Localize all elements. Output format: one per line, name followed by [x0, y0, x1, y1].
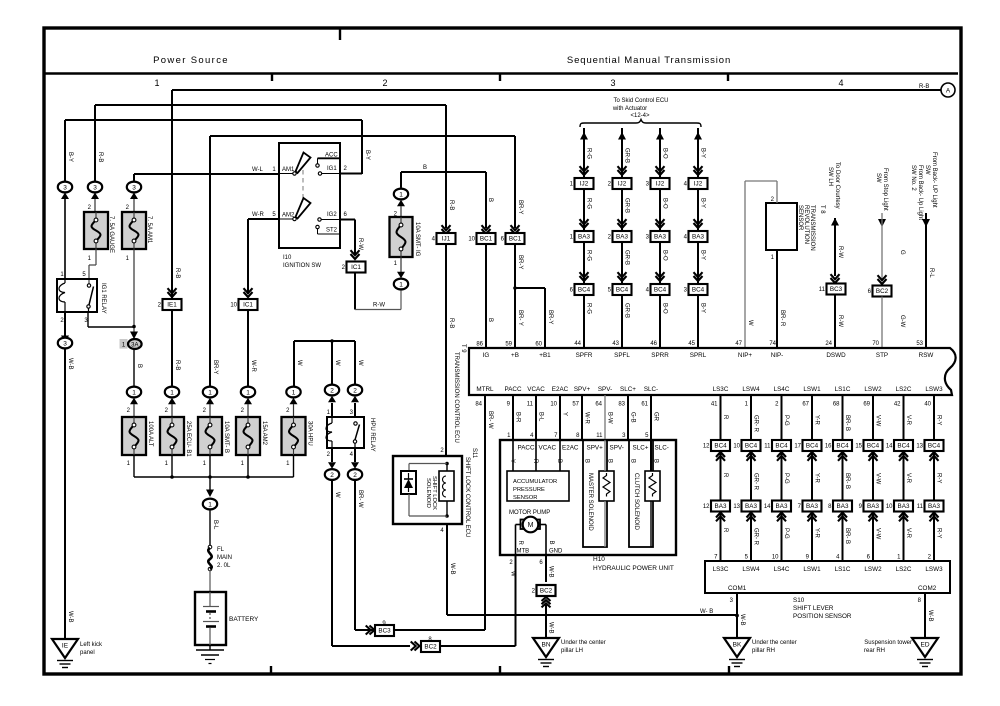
svg-text:B: B	[556, 459, 562, 463]
svg-text:GR- R: GR- R	[753, 528, 759, 546]
svg-text:3: 3	[63, 340, 67, 347]
svg-text:GR-B: GR-B	[624, 250, 630, 265]
svg-text:LS2C: LS2C	[896, 386, 912, 393]
svg-text:GR- R: GR- R	[753, 415, 759, 433]
svg-text:57: 57	[572, 402, 579, 408]
svg-text:pillar LH: pillar LH	[561, 648, 583, 654]
svg-text:B-Y: B-Y	[700, 303, 706, 313]
svg-text:W-B: W-B	[548, 566, 554, 578]
svg-text:BR-Y: BR-Y	[547, 310, 553, 324]
svg-text:B: B	[487, 198, 493, 202]
svg-text:A: A	[946, 87, 951, 94]
svg-text:BA3: BA3	[578, 234, 590, 241]
svg-text:BC2: BC2	[876, 288, 889, 295]
svg-text:IJ2: IJ2	[694, 181, 703, 188]
svg-text:SLC+: SLC+	[620, 386, 636, 393]
svg-text:G: G	[899, 250, 905, 255]
svg-text:SW: SW	[924, 165, 930, 175]
svg-text:W-R: W-R	[252, 212, 265, 218]
svg-text:W: W	[296, 360, 302, 366]
svg-text:12: 12	[703, 444, 710, 450]
svg-text:1: 1	[208, 389, 212, 396]
svg-text:V-R: V-R	[905, 528, 911, 539]
svg-text:R: R	[722, 415, 728, 420]
svg-text:R-B: R-B	[97, 152, 103, 162]
svg-text:13: 13	[916, 444, 923, 450]
svg-text:47: 47	[735, 341, 742, 347]
svg-text:SPV+: SPV+	[574, 386, 591, 393]
svg-text:B-O: B-O	[662, 303, 668, 314]
svg-text:ACCUMULATOR: ACCUMULATOR	[513, 479, 557, 485]
svg-text:VCAC: VCAC	[539, 445, 557, 452]
svg-text:84: 84	[475, 402, 482, 408]
svg-text:3: 3	[610, 78, 615, 88]
svg-text:R-G: R-G	[586, 198, 592, 209]
svg-text:MOTOR PUMP: MOTOR PUMP	[509, 510, 550, 516]
svg-text:30A HPU: 30A HPU	[307, 421, 313, 446]
svg-text:12: 12	[703, 504, 710, 510]
svg-text:IJ1: IJ1	[442, 236, 451, 243]
svg-text:BA3: BA3	[837, 503, 849, 510]
svg-text:LSW3: LSW3	[925, 386, 943, 393]
svg-text:Y: Y	[562, 412, 568, 416]
svg-text:PACC: PACC	[504, 386, 521, 393]
svg-text:3: 3	[93, 184, 97, 191]
svg-text:BC3: BC3	[830, 286, 843, 293]
svg-text:V-W: V-W	[875, 528, 881, 540]
svg-text:B-Y: B-Y	[364, 150, 370, 160]
svg-text:LSW4: LSW4	[742, 566, 760, 573]
svg-text:17: 17	[794, 444, 801, 450]
svg-text:3: 3	[132, 184, 136, 191]
svg-text:44: 44	[574, 341, 581, 347]
svg-text:SENSOR: SENSOR	[797, 205, 803, 231]
svg-text:W-R: W-R	[584, 412, 590, 425]
svg-text:13: 13	[733, 504, 740, 510]
svg-text:B-O: B-O	[662, 198, 668, 209]
svg-text:1: 1	[132, 389, 136, 396]
svg-text:R-B: R-B	[174, 360, 180, 370]
svg-text:100A ALT: 100A ALT	[147, 421, 153, 447]
svg-text:Left kick: Left kick	[80, 642, 103, 648]
svg-text:IG: IG	[483, 352, 490, 359]
svg-text:S11: S11	[471, 448, 477, 459]
svg-text:S10: S10	[793, 597, 805, 604]
svg-text:BA3: BA3	[616, 234, 628, 241]
svg-text:<12-4>: <12-4>	[630, 113, 650, 119]
svg-text:BC1: BC1	[480, 236, 493, 243]
svg-text:To Door Courtesy: To Door Courtesy	[834, 162, 840, 209]
svg-text:BA3: BA3	[898, 503, 910, 510]
svg-text:W-B: W-B	[548, 622, 554, 634]
svg-text:W-B: W-B	[927, 610, 933, 622]
svg-text:BC4: BC4	[616, 287, 629, 294]
svg-text:7. 5A GAUGE: 7. 5A GAUGE	[108, 216, 114, 253]
svg-text:BR- W: BR- W	[487, 411, 493, 429]
svg-text:SPFR: SPFR	[576, 352, 593, 359]
svg-text:64: 64	[595, 402, 602, 408]
svg-text:B: B	[584, 459, 590, 463]
svg-text:1: 1	[170, 389, 174, 396]
svg-text:67: 67	[802, 402, 809, 408]
svg-text:IJ2: IJ2	[656, 181, 665, 188]
svg-text:P-G: P-G	[783, 528, 789, 539]
svg-text:T 8: T 8	[819, 205, 825, 214]
svg-text:IGNITION SW: IGNITION SW	[283, 263, 321, 269]
svg-text:DSWD: DSWD	[826, 352, 846, 359]
svg-text:B-O: B-O	[662, 148, 668, 159]
svg-text:15A AM2: 15A AM2	[261, 421, 267, 446]
svg-text:V-R: V-R	[905, 473, 911, 484]
svg-text:PRESSURE: PRESSURE	[513, 487, 545, 493]
svg-text:Under the center: Under the center	[561, 640, 606, 646]
svg-text:BR- R: BR- R	[779, 310, 785, 327]
svg-text:pillar RH: pillar RH	[752, 648, 775, 654]
svg-text:R-Y: R-Y	[936, 473, 942, 483]
svg-text:LSW3: LSW3	[925, 566, 943, 573]
svg-text:To Skid Control ECU: To Skid Control ECU	[613, 98, 668, 104]
svg-text:BC4: BC4	[775, 443, 788, 450]
svg-text:M: M	[528, 522, 534, 529]
svg-text:LS2C: LS2C	[896, 566, 912, 573]
svg-text:MTRL: MTRL	[476, 386, 494, 393]
svg-text:7. 5A AM1: 7. 5A AM1	[146, 216, 152, 244]
svg-text:B-L: B-L	[212, 520, 218, 530]
svg-text:GR-B: GR-B	[624, 148, 630, 163]
svg-text:BC4: BC4	[836, 443, 849, 450]
svg-text:TRANSMISSION CONTROL ECU: TRANSMISSION CONTROL ECU	[453, 352, 459, 443]
svg-text:G-B: G-B	[630, 412, 636, 423]
svg-text:+B: +B	[511, 352, 519, 359]
svg-text:86: 86	[476, 342, 483, 348]
svg-text:SENSOR: SENSOR	[513, 495, 537, 501]
svg-text:IG2: IG2	[327, 212, 337, 218]
svg-text:15: 15	[855, 444, 862, 450]
svg-text:B-Y: B-Y	[700, 198, 706, 208]
svg-text:B: B	[423, 165, 427, 171]
svg-text:R-B: R-B	[448, 318, 454, 328]
svg-text:ED: ED	[920, 642, 929, 649]
svg-text:B-Y: B-Y	[700, 250, 706, 260]
svg-text:From Stop Light: From Stop Light	[882, 168, 888, 211]
svg-text:10: 10	[550, 402, 557, 408]
svg-text:W: W	[334, 360, 340, 366]
svg-text:BR- W: BR- W	[357, 490, 363, 508]
svg-text:SHIFT LEVER: SHIFT LEVER	[793, 605, 834, 612]
svg-text:10: 10	[733, 444, 740, 450]
svg-text:B: B	[487, 318, 493, 322]
svg-text:Under the center: Under the center	[752, 640, 797, 646]
svg-text:11: 11	[764, 444, 771, 450]
svg-text:W-R: W-R	[250, 360, 256, 373]
svg-text:B: B	[136, 364, 142, 368]
svg-text:with Actuator: with Actuator	[612, 106, 647, 112]
svg-text:RSW: RSW	[919, 352, 934, 359]
svg-text:R: R	[532, 459, 538, 464]
svg-text:BA3: BA3	[654, 234, 666, 241]
svg-text:41: 41	[711, 402, 718, 408]
svg-text:H10: H10	[593, 556, 605, 563]
svg-text:IC1: IC1	[351, 264, 361, 271]
svg-text:R: R	[517, 541, 523, 546]
svg-text:VCAC: VCAC	[527, 386, 545, 393]
svg-text:IG1: IG1	[327, 166, 337, 172]
svg-text:14: 14	[886, 444, 893, 450]
svg-text:GR: GR	[653, 412, 659, 422]
svg-text:W: W	[510, 571, 516, 577]
svg-text:1: 1	[246, 389, 250, 396]
svg-text:11: 11	[527, 402, 534, 408]
svg-text:GR-B: GR-B	[624, 303, 630, 318]
svg-text:BR-Y: BR-Y	[517, 255, 523, 269]
svg-text:BC4: BC4	[806, 443, 819, 450]
svg-text:2: 2	[382, 78, 387, 88]
svg-text:POSITION SENSOR: POSITION SENSOR	[793, 613, 852, 620]
svg-text:10A SMT- B: 10A SMT- B	[223, 421, 229, 453]
svg-text:B-L: B-L	[538, 412, 544, 422]
svg-text:3A: 3A	[131, 342, 138, 348]
svg-text:IJ2: IJ2	[618, 181, 627, 188]
svg-text:2: 2	[353, 472, 357, 479]
svg-text:BA3: BA3	[692, 234, 704, 241]
svg-text:59: 59	[505, 342, 512, 348]
svg-text:BC4: BC4	[692, 287, 705, 294]
svg-text:SPFL: SPFL	[614, 352, 630, 359]
svg-text:G-W: G-W	[899, 315, 905, 328]
svg-text:BC4: BC4	[654, 287, 667, 294]
svg-text:3: 3	[63, 184, 67, 191]
svg-text:BATTERY: BATTERY	[229, 616, 259, 623]
svg-text:B: B	[548, 541, 554, 545]
svg-text:83: 83	[618, 402, 625, 408]
svg-text:4: 4	[838, 78, 843, 88]
svg-text:SPRL: SPRL	[690, 352, 707, 359]
svg-text:R: R	[722, 528, 728, 533]
svg-text:V-R: V-R	[905, 415, 911, 426]
svg-text:Y-R: Y-R	[814, 473, 820, 483]
svg-text:Power Source: Power Source	[153, 55, 229, 66]
svg-text:SOLENOID: SOLENOID	[425, 478, 431, 508]
svg-text:IE1: IE1	[167, 302, 177, 309]
svg-text:STP: STP	[876, 352, 888, 359]
svg-text:45: 45	[688, 341, 695, 347]
svg-text:R: R	[722, 473, 728, 478]
svg-text:R-Y: R-Y	[936, 528, 942, 538]
svg-text:CLUTCH SOLENOID: CLUTCH SOLENOID	[633, 473, 639, 531]
svg-text:IC1: IC1	[243, 302, 253, 309]
svg-text:BN: BN	[541, 642, 550, 649]
svg-text:BA3: BA3	[928, 503, 940, 510]
svg-text:+B1: +B1	[539, 352, 551, 359]
svg-text:T 9: T 9	[460, 344, 466, 353]
svg-text:68: 68	[833, 402, 840, 408]
svg-text:B-R: B-R	[515, 412, 521, 423]
svg-text:BR- B: BR- B	[844, 528, 850, 544]
svg-text:W-B: W-B	[739, 614, 745, 626]
svg-text:70: 70	[872, 341, 879, 347]
svg-text:SW No. 2: SW No. 2	[910, 165, 916, 191]
svg-text:LS3C: LS3C	[713, 566, 729, 573]
svg-text:NIP+: NIP+	[738, 352, 752, 359]
svg-text:W: W	[747, 320, 753, 326]
svg-text:BR- B: BR- B	[844, 415, 850, 431]
svg-text:P-G: P-G	[783, 415, 789, 426]
svg-text:R-G: R-G	[586, 303, 592, 314]
svg-text:16: 16	[825, 444, 832, 450]
svg-text:BC4: BC4	[745, 443, 758, 450]
svg-text:B-O: B-O	[662, 250, 668, 261]
svg-text:W: W	[357, 360, 363, 366]
svg-text:COM1: COM1	[728, 585, 747, 592]
svg-text:1: 1	[154, 78, 159, 88]
svg-text:LSW2: LSW2	[864, 386, 882, 393]
svg-text:BA3: BA3	[745, 503, 757, 510]
svg-text:panel: panel	[80, 650, 95, 656]
svg-text:B-Y: B-Y	[700, 148, 706, 158]
svg-text:2. 0L: 2. 0L	[217, 563, 231, 569]
svg-text:BC4: BC4	[897, 443, 910, 450]
svg-text:W: W	[334, 492, 340, 498]
svg-text:BR-Y: BR-Y	[212, 360, 218, 374]
svg-text:P-G: P-G	[783, 473, 789, 484]
svg-text:ACC: ACC	[325, 153, 338, 159]
svg-text:LS1C: LS1C	[835, 386, 851, 393]
svg-text:61: 61	[641, 402, 648, 408]
svg-text:10A SMT- IG: 10A SMT- IG	[414, 222, 420, 257]
svg-text:Suspension tower: Suspension tower	[864, 640, 912, 646]
svg-text:From Back- UP Light: From Back- UP Light	[931, 152, 937, 208]
svg-text:BA3: BA3	[776, 503, 788, 510]
svg-text:LSW2: LSW2	[864, 566, 882, 573]
svg-text:43: 43	[612, 341, 619, 347]
svg-text:R-G: R-G	[586, 148, 592, 159]
svg-text:10: 10	[886, 504, 893, 510]
svg-text:LS4C: LS4C	[774, 386, 790, 393]
svg-text:25A ECU- B1: 25A ECU- B1	[185, 421, 191, 457]
svg-text:69: 69	[863, 402, 870, 408]
svg-text:SLC-: SLC-	[655, 445, 669, 452]
svg-text:SW: SW	[875, 173, 881, 183]
svg-text:SW LH: SW LH	[827, 167, 833, 186]
svg-text:74: 74	[769, 341, 776, 347]
svg-text:E2AC: E2AC	[552, 386, 569, 393]
svg-text:BA3: BA3	[806, 503, 818, 510]
svg-text:B: B	[630, 459, 636, 463]
svg-text:W-B: W-B	[67, 611, 73, 623]
svg-text:SLC-: SLC-	[644, 386, 658, 393]
svg-text:BR- B: BR- B	[844, 473, 850, 489]
svg-text:COM2: COM2	[918, 585, 937, 592]
svg-text:IJ2: IJ2	[580, 181, 589, 188]
svg-text:SPRR: SPRR	[651, 352, 669, 359]
svg-text:BK: BK	[733, 642, 742, 649]
svg-text:R-W: R-W	[357, 238, 363, 250]
svg-text:Y-R: Y-R	[814, 528, 820, 538]
svg-text:R-Y: R-Y	[936, 415, 942, 425]
svg-text:W- B: W- B	[700, 609, 713, 615]
svg-text:1: 1	[399, 281, 403, 288]
svg-text:LSW1: LSW1	[803, 386, 821, 393]
svg-text:R-G: R-G	[586, 250, 592, 261]
svg-text:BC1: BC1	[509, 236, 522, 243]
svg-text:NIP-: NIP-	[771, 352, 784, 359]
svg-text:BC4: BC4	[714, 443, 727, 450]
svg-text:Y-R: Y-R	[814, 415, 820, 425]
svg-text:I10: I10	[283, 255, 292, 261]
svg-text:SPV-: SPV-	[598, 386, 612, 393]
svg-text:24: 24	[825, 341, 832, 347]
svg-text:40: 40	[924, 402, 931, 408]
svg-text:2: 2	[330, 472, 334, 479]
svg-text:GND: GND	[549, 549, 563, 555]
svg-text:SLC+: SLC+	[633, 445, 649, 452]
svg-text:ST2: ST2	[326, 228, 338, 234]
svg-text:IG1 RELAY: IG1 RELAY	[100, 283, 106, 314]
svg-text:B-W: B-W	[607, 412, 613, 424]
svg-text:BA3: BA3	[715, 503, 727, 510]
svg-text:W-L: W-L	[252, 167, 264, 173]
svg-text:LSW4: LSW4	[742, 386, 760, 393]
svg-text:MAIN: MAIN	[217, 555, 232, 561]
svg-text:BC3: BC3	[378, 628, 391, 635]
svg-text:LS3C: LS3C	[713, 386, 729, 393]
svg-text:SPV-: SPV-	[610, 445, 624, 452]
svg-text:BR- Y: BR- Y	[517, 310, 523, 326]
svg-text:R-W: R-W	[837, 315, 843, 327]
svg-text:BC4: BC4	[928, 443, 941, 450]
svg-text:GR-B: GR-B	[624, 198, 630, 213]
svg-text:46: 46	[650, 341, 657, 347]
svg-text:R-B: R-B	[174, 268, 180, 278]
svg-text:BA3: BA3	[867, 503, 879, 510]
svg-text:R-W: R-W	[373, 303, 385, 309]
svg-text:Sequential Manual Transmission: Sequential Manual Transmission	[567, 55, 731, 66]
svg-text:BC4: BC4	[867, 443, 880, 450]
svg-text:Y: Y	[509, 459, 515, 463]
svg-text:W-B: W-B	[67, 358, 73, 370]
svg-text:B-Y: B-Y	[67, 152, 73, 162]
svg-text:BC2: BC2	[540, 588, 553, 595]
svg-text:SPV+: SPV+	[587, 445, 604, 452]
svg-text:11: 11	[819, 287, 826, 293]
svg-text:V-W: V-W	[875, 473, 881, 485]
svg-text:10: 10	[772, 555, 779, 561]
svg-text:From Back- Up Light: From Back- Up Light	[917, 165, 923, 220]
svg-text:FL: FL	[217, 547, 225, 553]
svg-text:MASTER SOLENOID: MASTER SOLENOID	[587, 473, 593, 531]
svg-text:10: 10	[468, 237, 475, 243]
svg-text:53: 53	[916, 341, 923, 347]
svg-text:SHIFT LOCK CONTROL ECU: SHIFT LOCK CONTROL ECU	[464, 457, 470, 537]
svg-text:HYDRAULIC POWER UNIT: HYDRAULIC POWER UNIT	[593, 565, 674, 572]
svg-text:2: 2	[353, 387, 357, 394]
svg-text:IE: IE	[62, 643, 69, 650]
svg-text:LS1C: LS1C	[835, 566, 851, 573]
svg-text:1: 1	[292, 389, 296, 396]
svg-text:MTB: MTB	[517, 549, 530, 555]
svg-text:HPU RELAY: HPU RELAY	[369, 418, 375, 452]
svg-text:R-B: R-B	[448, 200, 454, 210]
svg-text:R-W: R-W	[837, 246, 843, 258]
svg-text:PACC: PACC	[518, 445, 535, 452]
svg-text:1: 1	[399, 191, 403, 198]
svg-text:10: 10	[230, 303, 237, 309]
svg-text:60: 60	[535, 342, 542, 348]
svg-text:E2AC: E2AC	[562, 445, 579, 452]
svg-text:BC2: BC2	[424, 644, 437, 651]
svg-text:BC4: BC4	[578, 287, 591, 294]
svg-text:R-L: R-L	[928, 268, 934, 278]
